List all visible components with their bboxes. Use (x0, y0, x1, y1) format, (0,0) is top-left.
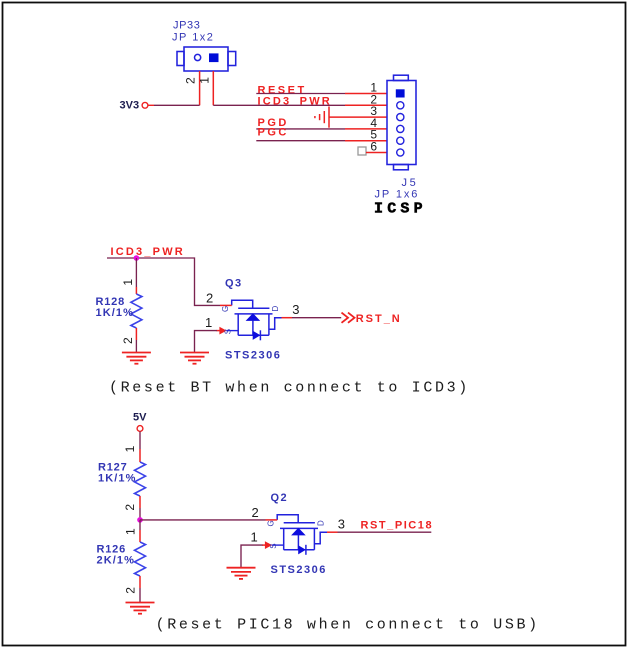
wire Q3 pin1 to ground (195, 331, 218, 353)
body diode (253, 331, 261, 340)
svg-text:Q2: Q2 (271, 492, 288, 504)
svg-text:1K/1%: 1K/1% (96, 307, 135, 319)
pin 3 stub (282, 317, 293, 319)
wire junction to R128 (135, 258, 137, 287)
svg-text:ICSP: ICSP (374, 201, 427, 218)
svg-text:2: 2 (123, 587, 137, 594)
svg-text:2K/1%: 2K/1% (97, 555, 136, 567)
svg-text:3: 3 (292, 302, 299, 317)
svg-text:1K/1%: 1K/1% (98, 473, 137, 485)
svg-text:1: 1 (123, 528, 137, 535)
wire PGC (256, 140, 345, 142)
wire 5V to R127 (139, 432, 141, 450)
J5 pin circles 2-6 (397, 102, 404, 156)
resistor R127 (135, 449, 146, 520)
svg-text:2: 2 (206, 291, 213, 306)
svg-text:(Reset BT when connect to ICD3: (Reset BT when connect to ICD3) (109, 380, 470, 397)
svg-text:JP 1x2: JP 1x2 (172, 32, 214, 44)
svg-text:D: D (271, 306, 280, 312)
port RST_N chevrons (342, 313, 355, 323)
JP33 pin 1 square (209, 53, 219, 62)
svg-text:1: 1 (123, 445, 137, 452)
svg-text:J5: J5 (402, 177, 419, 189)
svg-text:JP 1x6: JP 1x6 (375, 189, 420, 201)
svg-text:2: 2 (184, 77, 198, 84)
svg-text:STS2306: STS2306 (271, 564, 327, 576)
svg-text:PGC: PGC (258, 127, 289, 139)
transistor Q3 (STS2306 p-mosfet) (217, 300, 293, 340)
svg-text:Q3: Q3 (225, 278, 242, 290)
ground at Q3 pin 1 (180, 353, 209, 364)
connector JP33 body (177, 47, 236, 71)
svg-text:RST_PIC18: RST_PIC18 (361, 520, 434, 532)
svg-text:6: 6 (370, 140, 377, 154)
svg-text:1: 1 (197, 77, 211, 84)
svg-text:1: 1 (205, 315, 212, 330)
wire Q3 pin3 to RST_N port (292, 317, 341, 319)
ground at J5 pin 3 (rotated earth) (315, 107, 329, 128)
pin 1 red arrow (217, 330, 221, 332)
JP33 pin circle (195, 54, 201, 60)
JP33 pin 2 stub (199, 71, 201, 105)
svg-text:G: G (221, 306, 230, 312)
J5 pin 1 square (396, 89, 405, 97)
wire Q2 pin1 to ground (241, 545, 263, 568)
ground at Q2 pin 1 (227, 568, 256, 579)
JP33 pin 1 stub (212, 71, 214, 105)
connector J5 body (387, 75, 416, 170)
mosfet arrow (246, 313, 261, 321)
wire Q2 pin3 to RST_PIC18 (338, 531, 432, 533)
no connect square at J5 pin 6 (358, 147, 366, 155)
svg-text:1: 1 (121, 279, 135, 286)
resistor R126 (135, 520, 146, 603)
svg-text:(Reset PIC18 when connect to U: (Reset PIC18 when connect to USB) (156, 616, 540, 633)
svg-text:2: 2 (121, 337, 135, 344)
ground below R128 (122, 353, 151, 364)
svg-text:3: 3 (338, 517, 345, 532)
ground below R126 (126, 603, 155, 614)
svg-text:5V: 5V (133, 412, 147, 424)
resistor R128 (131, 287, 142, 353)
wire ICD3_PWR from JP33 pin1 to J5 pin2 (213, 104, 345, 106)
J5 pin numbers (370, 81, 377, 154)
wire 3V3 to JP33 pin2 (154, 104, 200, 106)
transistor Q2 (STS2306 p-mosfet) (262, 515, 338, 555)
svg-text:2: 2 (123, 504, 137, 511)
svg-text:JP33: JP33 (173, 20, 200, 32)
junction dot (134, 255, 140, 261)
wire junction to Q2 pin 2 (140, 519, 266, 521)
svg-text:ICD3_PWR: ICD3_PWR (111, 246, 185, 258)
svg-text:3V3: 3V3 (120, 100, 140, 112)
svg-text:2: 2 (252, 505, 259, 520)
J5 pin stubs (329, 94, 387, 153)
wire RESET (256, 93, 345, 95)
pin 2 stub (220, 304, 232, 306)
wire PGD (256, 128, 345, 130)
junction dot (5V divider) (137, 517, 143, 523)
wire ICD3_PWR mid (107, 258, 220, 305)
svg-text:1: 1 (251, 530, 258, 545)
svg-text:S: S (224, 329, 233, 334)
svg-text:STS2306: STS2306 (225, 350, 281, 362)
svg-text:RST_N: RST_N (356, 313, 402, 325)
